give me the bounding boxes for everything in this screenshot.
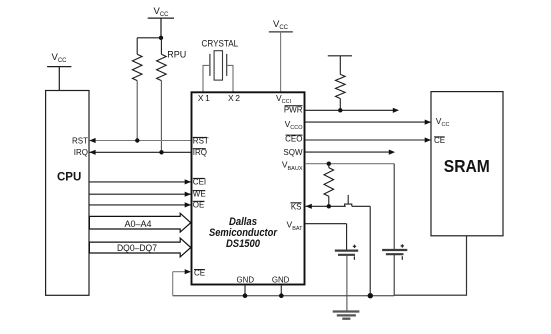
crystal Y1 (202, 39, 239, 92)
SRAM block U2 (431, 92, 503, 236)
wire SRAM ground drop (466, 236, 468, 296)
svg-text:DQ0–DQ7: DQ0–DQ7 (117, 243, 157, 253)
wire SQW output (305, 150, 395, 155)
bus A0-A4 (CPU to DS1500) (89, 213, 190, 232)
resistor R-KS (Vbaux to KS) (324, 164, 334, 207)
svg-text:PWR: PWR (284, 105, 303, 114)
IC U1 DS1500 body (192, 92, 305, 284)
wire Vbaux (DS1500 to battery B2) (305, 162, 394, 251)
svg-text:CEO: CEO (285, 135, 302, 144)
svg-text:VCC: VCC (273, 19, 289, 31)
resistor RPU-a (pull-up to RST) (132, 38, 142, 141)
svg-text:X2: X2 (228, 93, 242, 103)
svg-text:VCC: VCC (52, 52, 68, 64)
svg-text:SQW: SQW (283, 148, 303, 157)
svg-text:VCC: VCC (154, 6, 170, 18)
svg-text:A0–A4: A0–A4 (124, 219, 151, 229)
svg-text:SRAM: SRAM (444, 156, 490, 176)
pin CEO label (DS1500) (285, 135, 302, 144)
power Vcc symbol (above RPU resistors) (148, 6, 174, 38)
wire WE (CPU to DS1500) (89, 192, 190, 197)
wire Vbat (DS1500 to battery B1) (305, 224, 347, 251)
wire IRQ (CPU to DS1500) (89, 150, 191, 155)
wire CE loop (DS1500 CE to ground rail) (173, 269, 191, 296)
pin KS label (DS1500) (291, 202, 302, 211)
resistor RPU-b (pull-up to IRQ) (157, 38, 187, 153)
svg-text:GND: GND (237, 275, 255, 285)
svg-text:DS1500: DS1500 (226, 238, 260, 250)
CPU block U-CPU (46, 91, 89, 296)
wire CEO (DS1500 to SRAM CE) (305, 137, 431, 142)
wire GND stub 2 (279, 285, 284, 298)
svg-text:RST: RST (72, 137, 88, 146)
pin WE label (DS1500) (193, 190, 206, 199)
svg-text:CPU: CPU (57, 171, 81, 183)
pin IRQ label (DS1500) (193, 148, 207, 157)
battery B1 (primary lithium) (335, 245, 358, 312)
battery B2 (auxiliary) (382, 244, 407, 296)
resistor R-PWR pull-up (336, 56, 346, 111)
svg-text:GND: GND (272, 275, 290, 285)
svg-text:X1: X1 (198, 93, 212, 103)
wire PWR output (305, 108, 399, 113)
wire OE (CPU to DS1500) (89, 202, 190, 207)
node Vcc junction (137, 36, 163, 40)
pin OE label (DS1500) (193, 200, 205, 209)
power Vcc symbol (above CPU) (47, 52, 71, 90)
pin CE label (DS1500) (194, 269, 205, 278)
svg-text:CRYSTAL: CRYSTAL (202, 39, 239, 49)
wire GND stub 1 (243, 285, 248, 298)
power Vcc symbol (above DS1500 Vcci) (269, 19, 293, 91)
svg-text:IRQ: IRQ (74, 148, 88, 157)
ground symbol (333, 312, 360, 319)
pin PWR label (DS1500) (284, 105, 303, 114)
power bar (above PWR pull-up resistor) (328, 55, 352, 57)
wire ground rail (173, 295, 395, 297)
pin RST label (DS1500) (193, 137, 209, 146)
pin CEI label (DS1500) (193, 178, 206, 187)
wire RST (CPU to DS1500) (89, 138, 191, 143)
svg-text:RPU: RPU (167, 50, 186, 60)
bus DQ0-DQ7 (CPU to DS1500) (89, 238, 190, 257)
svg-text:KS: KS (291, 202, 302, 211)
wire Vcco (DS1500 to SRAM Vcc) (305, 120, 431, 125)
wire KS with pushbutton switch SW1 (306, 195, 373, 299)
wire CEI (CPU to DS1500) (89, 179, 190, 184)
